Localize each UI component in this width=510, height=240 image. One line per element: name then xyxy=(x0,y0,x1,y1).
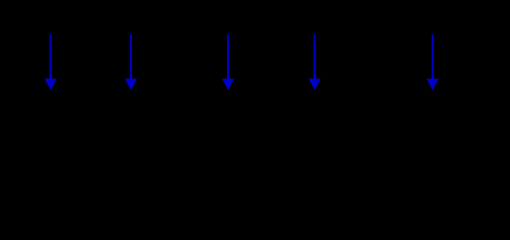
arrow 2 xyxy=(125,34,137,90)
arrow 3 xyxy=(222,34,234,90)
arrow 1 xyxy=(45,34,57,90)
arrow 5 xyxy=(427,34,439,90)
arrow 4 xyxy=(309,34,321,90)
diagram: five blue downward arrows on black background xyxy=(0,0,510,123)
